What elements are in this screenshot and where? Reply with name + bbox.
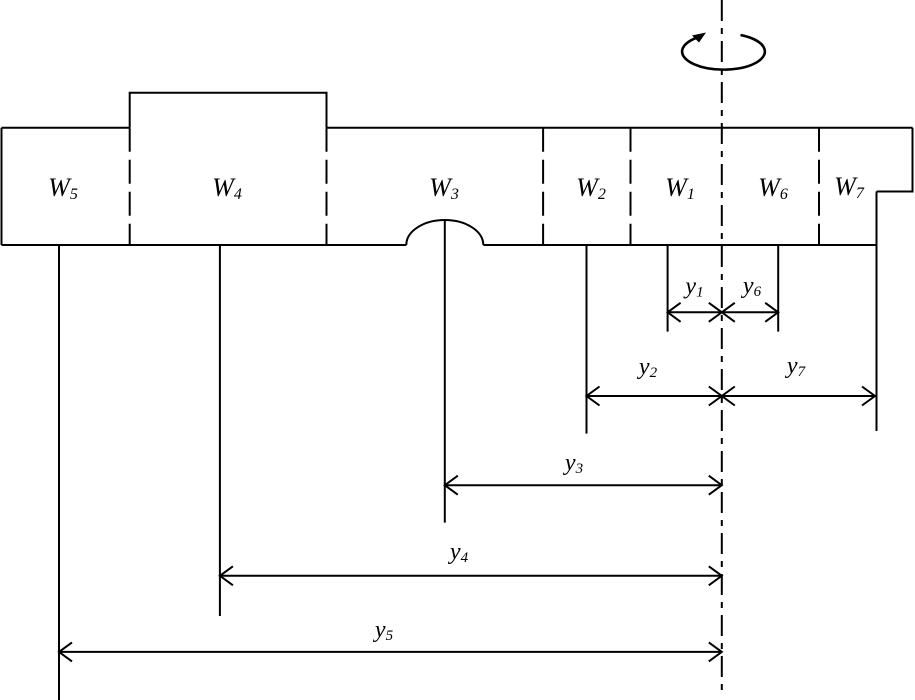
svg-text:W6: W6 xyxy=(758,173,788,203)
dimension line y6 xyxy=(722,311,778,313)
arrowhead y4 right xyxy=(709,566,722,585)
rotation arrow ellipse xyxy=(682,35,765,70)
dimension line y1 xyxy=(668,311,722,313)
beam right edge with step xyxy=(877,128,913,192)
svg-text:y2: y2 xyxy=(637,354,658,381)
svg-text:W4: W4 xyxy=(212,173,242,203)
raised block (W4 boss) xyxy=(130,93,327,128)
arrowhead y2 left xyxy=(587,387,600,406)
divider W4/W3 (dashed) xyxy=(326,128,328,245)
svg-text:y6: y6 xyxy=(741,273,762,300)
beam bottom edge left segment xyxy=(2,244,407,246)
arrowhead y3 left xyxy=(445,476,458,495)
arrowhead y3 right xyxy=(709,476,722,495)
extension line W6 xyxy=(777,245,779,332)
svg-text:W7: W7 xyxy=(834,172,865,202)
svg-text:W2: W2 xyxy=(576,173,606,203)
divider W5/W4 (dashed) xyxy=(129,128,131,245)
svg-text:y1: y1 xyxy=(683,274,703,301)
beam bottom edge right segment xyxy=(483,244,876,246)
svg-text:W1: W1 xyxy=(665,173,695,203)
arrowhead y4 left xyxy=(220,566,233,585)
svg-text:W5: W5 xyxy=(48,173,78,203)
arrowhead y7 left xyxy=(722,387,735,406)
dimension line y7 xyxy=(722,395,875,397)
divider W3/W2 (dashed) xyxy=(542,128,544,245)
extension line W4 xyxy=(219,245,221,616)
axis of rotation (dash-dot centerline) xyxy=(721,0,723,692)
svg-text:W3: W3 xyxy=(429,173,459,203)
dimension line y4 xyxy=(220,575,722,577)
beam top edge left segment xyxy=(2,127,130,129)
beam left edge xyxy=(1,128,3,245)
divider W2/W1 (dashed) xyxy=(630,128,632,245)
dimension line y3 xyxy=(445,484,722,486)
svg-text:y3: y3 xyxy=(563,450,583,477)
extension line W2 xyxy=(586,245,588,434)
extension line W1 xyxy=(667,245,669,332)
extension line W5 xyxy=(58,245,60,700)
divider W6/W7 (dashed) xyxy=(818,128,820,245)
arrowhead y1 left xyxy=(668,303,681,322)
arrowhead y5 left xyxy=(59,642,72,661)
rotation arrowhead xyxy=(692,33,706,43)
semicircular notch xyxy=(406,220,483,245)
beam top edge right segment xyxy=(327,127,913,129)
extension line W7 xyxy=(876,192,878,432)
arrowhead y5 right xyxy=(709,642,722,661)
dimension line y2 xyxy=(587,395,722,397)
svg-text:y7: y7 xyxy=(785,353,807,380)
arrowhead y7 right xyxy=(862,387,875,406)
svg-text:y5: y5 xyxy=(373,617,394,644)
extension line W3 xyxy=(444,221,446,523)
arrowhead y2 right xyxy=(709,387,722,406)
arrowhead y6 left xyxy=(722,303,735,322)
svg-text:y4: y4 xyxy=(448,539,469,566)
dimension line y5 xyxy=(59,651,722,653)
arrowhead y1 right xyxy=(709,303,722,322)
arrowhead y6 right xyxy=(765,303,778,322)
